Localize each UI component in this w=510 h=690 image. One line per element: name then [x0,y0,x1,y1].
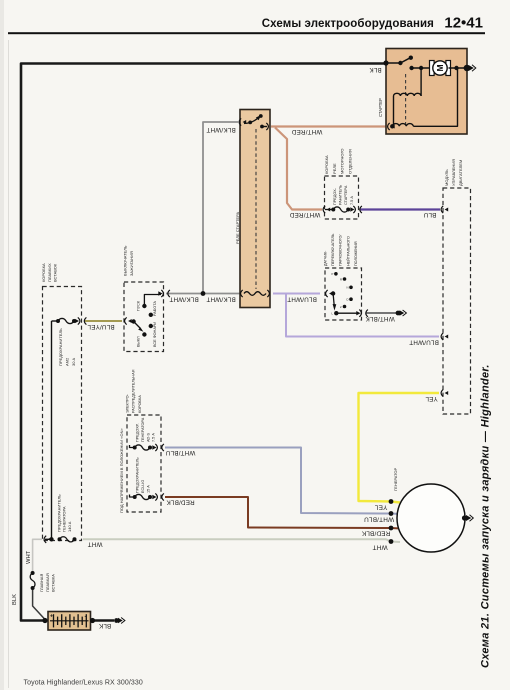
svg-text:WHT: WHT [372,543,387,550]
svg-text:P: P [332,272,334,276]
wire BLU fuse to ECM [360,208,440,210]
svg-text:КОРОБКАПЛАВКИХВСТАВОК: КОРОБКАПЛАВКИХВСТАВОК [41,263,58,282]
wire BLK/WHT vertical branch [203,122,238,294]
wire RED/BLK fuse to generator [165,497,400,529]
starter dashed line [405,74,407,126]
ECM pin BLU/WHT [445,335,449,339]
wire WHT/RED relay to starter [271,125,386,127]
electrical distribution box [127,415,161,512]
wire BLK/WHT ignition to relay [166,293,240,295]
battery ground [114,618,119,623]
svg-text:BLK/WHT: BLK/WHT [206,126,235,133]
svg-text:BLK/WHT: BLK/WHT [206,295,235,302]
starter box [386,49,467,135]
svg-text:BLU/WHT: BLU/WHT [287,295,317,302]
starter relay box [240,110,270,308]
junction BLK/WHT [201,291,206,296]
ignition switch box [124,282,164,352]
svg-text:D: D [347,298,349,302]
ground PN switch [396,311,401,316]
wire YEL ECM to generator [359,393,440,503]
svg-text:ВСЕ ФОНАРИ: ВСЕ ФОНАРИ [153,322,157,347]
ECM pin BLU [445,208,449,212]
ECM pin YEL [445,391,449,395]
svg-text:WHT/RED: WHT/RED [291,128,322,135]
fuse AM2 30A [52,320,59,322]
svg-text:WHT: WHT [88,540,103,547]
svg-text:M: M [435,64,445,71]
starter pull-in coil [394,93,422,96]
svg-text:RED/BLK: RED/BLK [166,498,195,505]
svg-text:BLK: BLK [98,622,111,629]
fuse generator AD-S 7.5A [130,445,135,448]
svg-text:BLK: BLK [369,66,382,73]
svg-text:RED/BLK: RED/BLK [361,529,390,536]
fuse ECU-IG 15A [130,495,135,498]
wire BLK battery to starter [21,64,386,621]
svg-text:СТАРТЕР: СТАРТЕР [378,98,383,117]
svg-text:ГЕНЕРАТОР: ГЕНЕРАТОР [393,467,398,491]
wire WHT/BLU fuse to generator [165,448,400,515]
svg-text:WHT/RED: WHT/RED [289,211,320,218]
svg-text:ПУСК: ПУСК [137,300,141,311]
svg-text:ПОД НАПРЯЖЕНИЕМ В ПОЛОЖЕНИИ «O: ПОД НАПРЯЖЕНИЕМ В ПОЛОЖЕНИИ «ON» [119,427,124,513]
generator terminals [389,499,394,504]
svg-text:РЕЛЕ СТАРТЕРА: РЕЛЕ СТАРТЕРА [235,212,240,244]
wire WHT battery to fusible link box [33,539,42,572]
ignition switch contacts [128,319,132,323]
svg-text:-: - [85,614,87,620]
svg-text:BLU/WHT: BLU/WHT [409,338,439,345]
wire WHT 140A fuse to generator [83,539,400,542]
svg-text:BLK: BLK [12,594,18,605]
svg-text:Схемы электрооборудования: Схемы электрооборудования [262,18,434,30]
generator [397,484,465,552]
generator ground [462,515,467,520]
svg-text:YEL: YEL [425,395,438,402]
svg-text:BLU/YEL: BLU/YEL [87,323,115,330]
battery terminals [42,618,47,623]
relay coil [241,290,243,297]
svg-text:WHT/BLU: WHT/BLU [165,449,195,456]
schematic caption - Схема 21 [480,364,492,668]
svg-text:12•41: 12•41 [444,15,483,32]
svg-text:Схема 21. Системы запуска и за: Схема 21. Системы запуска и зарядки — Hi… [480,364,492,668]
svg-text:ГЛАВНАЯПЛАВКАЯВСТАВКА: ГЛАВНАЯПЛАВКАЯВСТАВКА [39,573,56,592]
wire BLK battery to ground [91,619,115,621]
starter ground terminal [464,65,470,71]
main fusible link [30,573,35,588]
svg-text:BLU: BLU [423,211,436,218]
park/neutral position switch box [325,268,362,320]
starter switch [383,60,388,65]
header rule [8,32,485,34]
svg-text:WHT: WHT [26,550,32,564]
svg-text:WHT/BLK: WHT/BLK [365,315,395,322]
fuse starter 7.5A [327,208,331,212]
engine control module box [443,188,471,414]
fusible link box [43,287,82,541]
starter hold-in coil [391,125,395,129]
svg-text:N: N [347,286,349,290]
relay switch contact [243,120,247,124]
PN switch contacts [329,292,333,296]
wire BLU/WHT relay to PN switch [273,293,320,295]
svg-text:РАБОТА: РАБОТА [153,301,157,316]
svg-text:WHT/BLU: WHT/BLU [364,515,394,522]
motor M symbol [430,61,435,76]
wire WHT/RED branch to starter fuse [275,128,322,210]
wire WHT/BLK PN switch to ground [366,312,397,314]
svg-text:R: R [340,278,342,282]
svg-text:Toyota Highlander/Lexus RX 300: Toyota Highlander/Lexus RX 300/330 [24,680,143,687]
battery [48,612,91,631]
wire BLU/YEL fuse to ignition switch [85,320,122,322]
svg-text:YEL: YEL [374,503,387,510]
wire BLU/WHT branch to ECM [286,294,439,337]
svg-text:ВЫКЛ: ВЫКЛ [137,336,141,347]
engine compartment relay box [325,176,359,219]
svg-text:BLK/WHT: BLK/WHT [169,295,198,302]
svg-text:+: + [50,614,53,620]
fuse generator 140A [48,537,52,541]
starter motor circuit [409,66,413,70]
